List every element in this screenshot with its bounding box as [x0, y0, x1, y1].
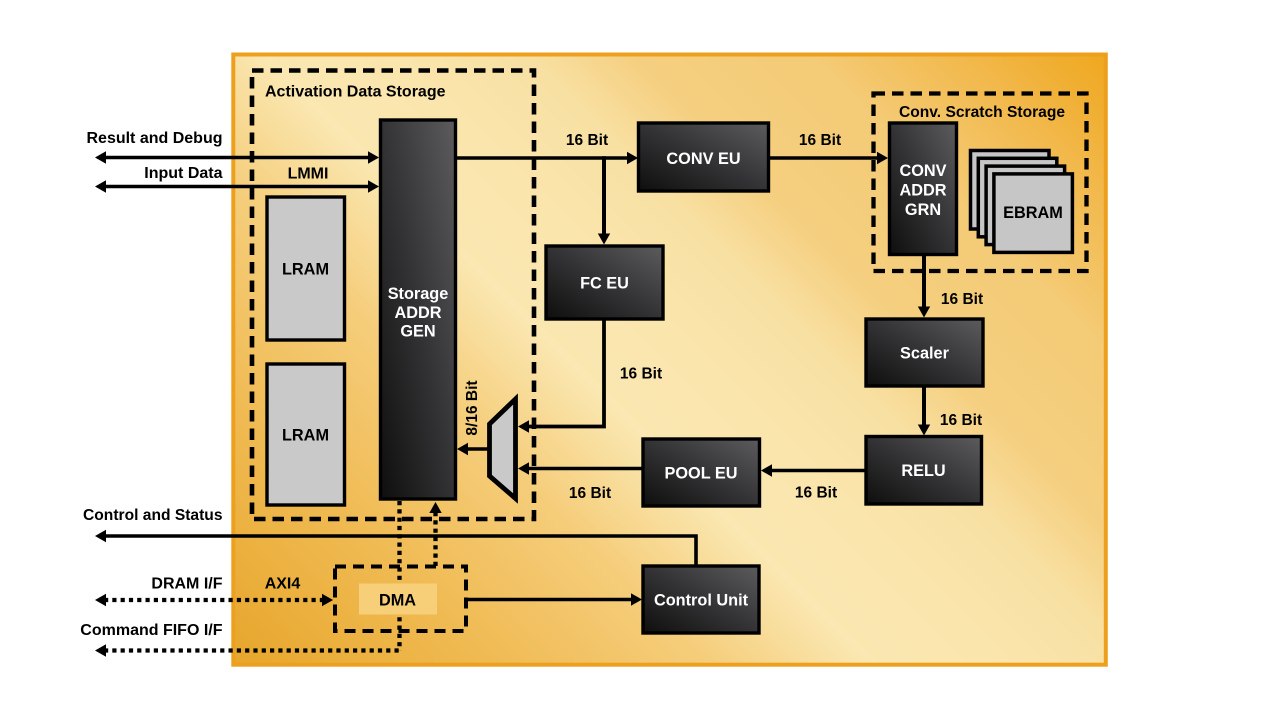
block conv eu	[639, 123, 769, 191]
svg-text:8/16 Bit: 8/16 Bit	[464, 380, 481, 435]
wire scaler to relu	[918, 386, 930, 436]
svg-text:Result and Debug: Result and Debug	[86, 130, 222, 147]
wire mux to storage-addr-gen	[457, 443, 490, 455]
DMA dashed box	[335, 567, 466, 632]
Conv. Scratch Storage dashed box	[874, 94, 1087, 272]
svg-text:DRAM I/F: DRAM I/F	[151, 576, 222, 593]
mux trapezoid	[490, 399, 516, 499]
wire dma to control unit	[467, 593, 643, 605]
wire conv-addr-grn to scaler	[918, 254, 930, 318]
wire control and status	[95, 530, 696, 566]
svg-text:GRN: GRN	[905, 201, 941, 219]
wire result and debug	[95, 151, 379, 163]
svg-text:16 Bit: 16 Bit	[799, 132, 841, 149]
svg-text:ADDR: ADDR	[899, 182, 946, 200]
svg-text:GEN: GEN	[400, 323, 435, 341]
svg-text:Storage: Storage	[388, 285, 449, 303]
dotted wire storage-addr-gen to dma	[397, 501, 401, 651]
dotted wire dram i/f (AXI4)	[95, 594, 333, 606]
svg-text:DMA: DMA	[379, 592, 416, 610]
svg-text:RELU: RELU	[901, 462, 945, 480]
svg-text:ADDR: ADDR	[394, 304, 441, 322]
svg-text:AXI4: AXI4	[265, 576, 301, 593]
block fc eu	[546, 246, 663, 319]
svg-text:LMMI: LMMI	[288, 166, 329, 183]
wire relu to pool-eu	[761, 464, 866, 476]
svg-text:16 Bit: 16 Bit	[941, 291, 983, 308]
svg-text:LRAM: LRAM	[282, 427, 329, 445]
svg-text:Control Unit: Control Unit	[654, 592, 749, 610]
svg-text:16 Bit: 16 Bit	[566, 132, 608, 149]
svg-text:CONV: CONV	[899, 162, 946, 180]
block control unit	[643, 566, 759, 633]
svg-text:Activation Data Storage: Activation Data Storage	[265, 84, 446, 101]
svg-text:16 Bit: 16 Bit	[940, 412, 982, 429]
svg-text:Scaler: Scaler	[900, 345, 950, 363]
svg-text:POOL EU: POOL EU	[665, 465, 738, 483]
panel background	[233, 55, 1106, 665]
wire conv-eu to conv-addr-grn	[768, 152, 888, 164]
block DMA	[359, 584, 437, 615]
svg-text:16 Bit: 16 Bit	[569, 485, 611, 502]
svg-text:FC EU: FC EU	[580, 275, 629, 293]
block ebram stack	[971, 151, 1073, 253]
wire storage-addr-gen to conv-eu	[455, 152, 638, 164]
svg-text:Control and Status: Control and Status	[83, 507, 223, 524]
wire branch to fc-eu	[598, 156, 610, 244]
wire input data (LMMI)	[95, 180, 379, 192]
svg-text:Command FIFO I/F: Command FIFO I/F	[80, 622, 222, 639]
block LRAM upper	[267, 197, 345, 340]
block pool eu	[643, 439, 760, 506]
wire fc-eu to mux	[518, 319, 604, 433]
block conv addr grn	[890, 123, 957, 255]
svg-text:16 Bit: 16 Bit	[795, 485, 837, 502]
svg-text:CONV EU: CONV EU	[666, 150, 740, 168]
Activation Data Storage dashed box	[252, 71, 534, 520]
wire pool-eu to mux	[518, 462, 643, 474]
svg-text:Input Data: Input Data	[144, 165, 222, 182]
block scaler	[866, 319, 983, 386]
dotted wire dma to storage-addr-gen (arrow up)	[429, 502, 441, 566]
dotted wire command fifo i/f	[95, 644, 402, 656]
block relu	[866, 437, 982, 505]
block storage addr gen	[381, 120, 456, 499]
svg-text:16 Bit: 16 Bit	[620, 366, 662, 383]
svg-text:EBRAM: EBRAM	[1003, 204, 1063, 222]
svg-text:LRAM: LRAM	[282, 261, 329, 279]
svg-text:Conv. Scratch Storage: Conv. Scratch Storage	[899, 104, 1065, 121]
block LRAM lower	[267, 364, 345, 505]
